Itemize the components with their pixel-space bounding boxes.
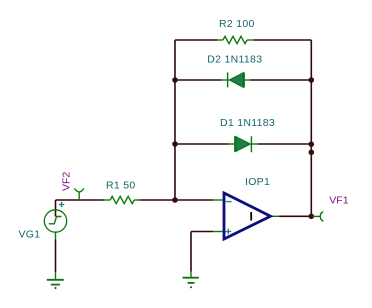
svg-text:VF2: VF2 [61,172,73,191]
svg-text:IOP1: IOP1 [245,176,270,188]
svg-text:R2 100: R2 100 [219,18,255,30]
svg-text:R1 50: R1 50 [106,180,136,192]
svg-text:D2 1N1183: D2 1N1183 [207,53,262,65]
svg-text:VG1: VG1 [19,229,41,241]
svg-text:VF1: VF1 [329,195,348,207]
svg-text:D1 1N1183: D1 1N1183 [220,117,275,129]
